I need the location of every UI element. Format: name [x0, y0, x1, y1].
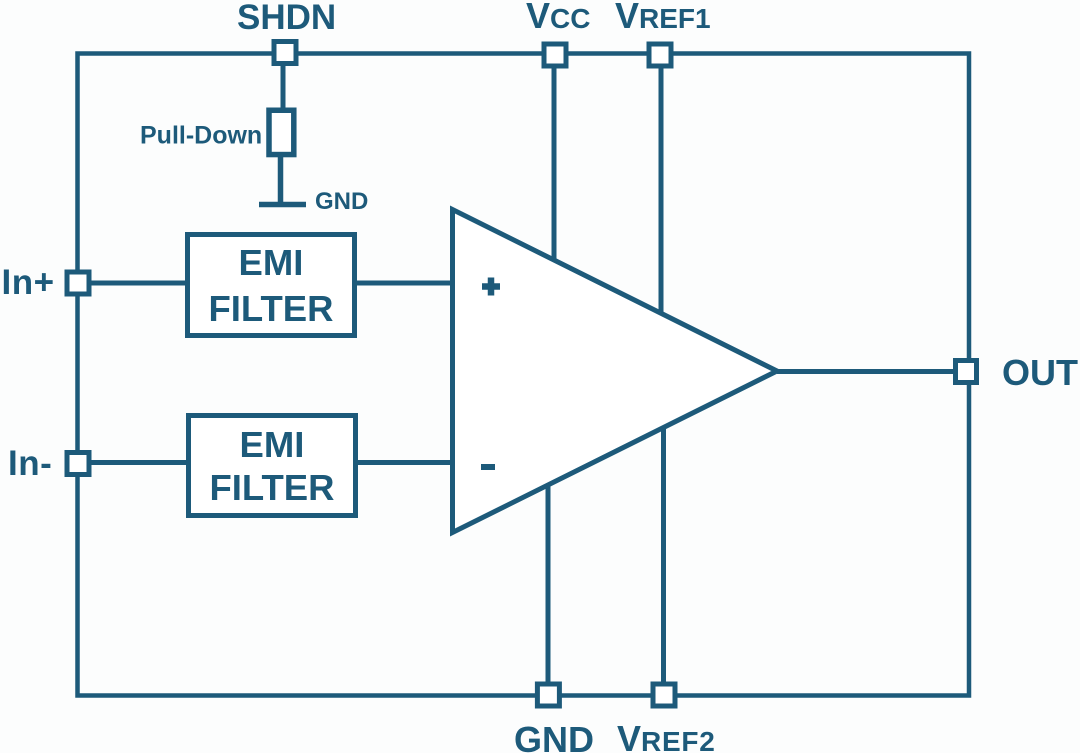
resistor Pull-Down: [269, 110, 294, 154]
svg-text:VREF2: VREF2: [617, 718, 716, 753]
IC package boundary rectangle: [78, 54, 970, 696]
ground symbol (bar): [259, 202, 306, 208]
pin In+ (square): [67, 272, 89, 294]
wire: In+ to EMI filter to op-amp non-inverting input: [78, 281, 456, 286]
wire: SHDN pin to pull-down resistor: [281, 53, 286, 112]
svg-text:FILTER: FILTER: [208, 288, 333, 329]
pin GND (square): [537, 684, 559, 706]
svg-text:Pull-Down: Pull-Down: [140, 122, 262, 150]
svg-text:VCC: VCC: [526, 0, 590, 36]
wire: op-amp output to OUT pin: [777, 369, 955, 374]
pin OUT (square): [956, 361, 977, 383]
svg-text:In-: In-: [8, 444, 52, 483]
svg-text:In+: In+: [2, 263, 55, 302]
wire: In- to EMI filter to op-amp inverting input: [78, 460, 456, 465]
svg-text:SHDN: SHDN: [237, 0, 336, 37]
pin VREF2 (square): [653, 684, 675, 706]
svg-text:OUT: OUT: [1002, 352, 1078, 393]
EMI filter block 1 (non-inverting path): [188, 235, 355, 336]
wire: GND net from op-amp to bottom border: [546, 483, 551, 696]
pin VREF1 (square): [649, 44, 671, 66]
wire: Vcc net from top border to op-amp: [552, 54, 557, 263]
svg-text:EMI: EMI: [240, 424, 305, 465]
pin SHDN (square): [274, 42, 296, 64]
pin In- (square): [67, 453, 89, 475]
svg-text:FILTER: FILTER: [209, 467, 334, 508]
svg-text:EMI: EMI: [239, 242, 304, 283]
svg-text:GND: GND: [514, 719, 594, 753]
svg-text:VREF1: VREF1: [615, 0, 711, 36]
op-amp U1: [453, 210, 778, 533]
pin Vcc (square): [544, 44, 566, 66]
wire: VREF1 net from top border to op-amp: [659, 54, 664, 317]
wire: resistor to ground: [278, 155, 284, 204]
wire: VREF2 net from op-amp to bottom border: [661, 425, 666, 696]
svg-text:GND: GND: [315, 188, 368, 215]
EMI filter block 2 (inverting path): [189, 416, 356, 516]
